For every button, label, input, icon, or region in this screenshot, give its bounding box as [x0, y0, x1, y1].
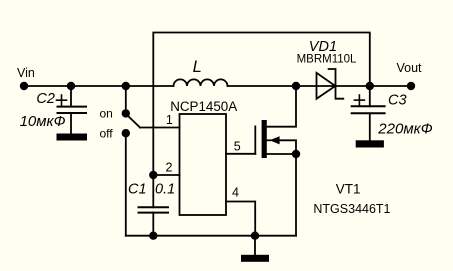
- svg-text:MBRM110L: MBRM110L: [297, 54, 357, 66]
- wire: pin 2 lead: [153, 174, 179, 176]
- svg-text:1: 1: [166, 113, 173, 127]
- node: switch off contact: [122, 129, 130, 137]
- svg-text:L: L: [193, 58, 202, 76]
- ground (under C3): [356, 140, 384, 147]
- svg-text:C2: C2: [36, 91, 55, 107]
- svg-text:VD1: VD1: [309, 39, 337, 55]
- svg-text:0.1: 0.1: [155, 181, 175, 197]
- node: Vin terminal: [20, 82, 28, 90]
- wire: pin 4 lead: [226, 202, 255, 236]
- node: switch on contact: [122, 109, 130, 117]
- svg-text:220мкФ: 220мкФ: [377, 121, 432, 138]
- transistor VT1 body arrow lead: [266, 139, 271, 141]
- svg-text:Vout: Vout: [397, 61, 423, 75]
- capacitor C2 bottom lead: [70, 113, 72, 134]
- node: pin 2 / C1 junction: [149, 171, 157, 179]
- node: Vout terminal: [407, 82, 415, 90]
- svg-text:NCP1450A: NCP1450A: [170, 99, 237, 114]
- IC U1 NCP1450A body: [180, 114, 227, 215]
- capacitor C1 bottom lead: [152, 213, 154, 236]
- transistor VT1 body arrowhead: [270, 136, 280, 144]
- wire: pin 5 lead to gate: [226, 153, 255, 155]
- wire: pin 1 lead: [140, 127, 180, 129]
- node: ground rail junction: [251, 232, 259, 240]
- capacitor C3 top lead: [369, 86, 371, 106]
- wire: drain node to output node (through diode): [296, 85, 370, 87]
- wire: bottom ground rail: [126, 235, 296, 237]
- svg-text:5: 5: [234, 140, 241, 154]
- wire: inductor to drain node: [228, 85, 297, 87]
- capacitor C3 plates: [352, 105, 385, 107]
- ground (main, below rail) stem: [254, 236, 256, 255]
- svg-text:C1: C1: [128, 181, 147, 197]
- diode VD1 triangle: [317, 73, 336, 99]
- svg-text:on: on: [100, 107, 113, 121]
- capacitor C3 bottom lead: [369, 113, 371, 140]
- svg-text:4: 4: [232, 186, 239, 200]
- wire: main input rail Vin to inductor: [24, 85, 174, 87]
- wire: feedback top box (Vout to pin 2): [153, 33, 369, 176]
- diode VD1 cathode bar with schottky tails: [329, 69, 344, 99]
- svg-text:off: off: [100, 127, 114, 141]
- transistor VT1 source lead: [267, 153, 296, 155]
- capacitor C1 plates: [139, 206, 169, 208]
- transistor VT1 channel bar: [262, 120, 267, 158]
- transistor VT1 drain lead: [267, 86, 296, 127]
- capacitor C1 top lead: [152, 175, 154, 207]
- wire: source down to ground rail: [295, 154, 297, 236]
- ground (main) bar: [241, 255, 269, 262]
- node: output junction: [366, 82, 374, 90]
- node: C1 to ground rail junction: [149, 232, 157, 240]
- node: switch junction: [122, 82, 130, 90]
- plus sign of C2: [57, 95, 67, 106]
- inductor L: [174, 79, 228, 86]
- node: drain junction: [292, 82, 300, 90]
- capacitor C2 plates: [58, 106, 87, 108]
- svg-text:2: 2: [166, 160, 173, 174]
- svg-text:C3: C3: [388, 93, 407, 109]
- wire: output node to Vout terminal: [370, 85, 411, 87]
- wire: off contact down to ground rail: [125, 133, 127, 236]
- capacitor C2 top lead: [70, 86, 72, 107]
- plus sign of C3: [354, 95, 364, 105]
- transistor VT1 gate electrode: [254, 126, 256, 153]
- ground (under C2): [57, 134, 88, 141]
- switch wiper (on position to pin 1): [127, 115, 141, 128]
- svg-text:VT1: VT1: [336, 182, 361, 197]
- node: C2 junction: [67, 82, 75, 90]
- node: source junction: [292, 150, 300, 158]
- wire: switch common drop from input rail: [125, 86, 127, 113]
- svg-text:Vin: Vin: [17, 66, 35, 80]
- svg-text:10мкФ: 10мкФ: [20, 113, 66, 130]
- svg-text:NTGS3446T1: NTGS3446T1: [313, 202, 390, 216]
